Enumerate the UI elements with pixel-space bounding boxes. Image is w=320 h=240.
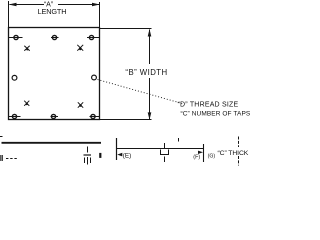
arrowhead A left <box>9 3 17 7</box>
thickness dim line lower <box>238 156 240 166</box>
tap symbol 2 lower centerline <box>164 157 166 163</box>
X mark upper-right <box>77 45 83 51</box>
top-right tap hole <box>89 35 93 39</box>
arrowhead B down <box>148 112 152 120</box>
top-left tap hole <box>14 35 18 39</box>
svg-text:(G): (G) <box>208 153 216 159</box>
svg-text:“C” NUMBER OF TAPS: “C” NUMBER OF TAPS <box>181 111 251 118</box>
tapped hole section centerline <box>87 147 89 153</box>
dimension line A right segment <box>58 4 99 6</box>
bottom-right tap hole <box>91 114 95 118</box>
svg-text:(F): (F) <box>193 154 200 160</box>
left extension line of bottom dimension <box>116 138 118 160</box>
extension line left of A dimension <box>8 1 10 28</box>
side view top surface line <box>2 142 102 144</box>
middle-left hole <box>12 75 17 80</box>
extension line top of B dimension <box>100 28 152 30</box>
tap symbol 2 U shape <box>161 150 169 155</box>
bottom dimension line <box>117 148 204 150</box>
svg-text:(E): (E) <box>123 153 131 160</box>
bottom-left tap hole <box>12 114 16 118</box>
hidden line dashes <box>6 158 17 160</box>
tap symbol 2 upper centerline <box>164 143 166 148</box>
dimension line A left segment <box>10 4 45 6</box>
dot <box>99 153 101 158</box>
extension line right of A dimension <box>99 2 101 28</box>
top-center tap hole <box>52 35 56 39</box>
plate outline (top view) <box>9 28 100 120</box>
left arrowhead <box>117 153 122 157</box>
thread dashes <box>84 158 86 164</box>
X mark lower-right <box>78 102 83 107</box>
svg-text:LENGTH: LENGTH <box>38 7 67 16</box>
side view corner tick <box>0 136 3 138</box>
svg-text:“D” THREAD SIZE: “D” THREAD SIZE <box>178 101 239 108</box>
bottom-center tap hole <box>51 114 55 118</box>
middle-right hole <box>92 75 97 80</box>
dimension line B lower segment <box>149 78 151 120</box>
thickness dim line upper <box>238 137 240 148</box>
dimension line B upper segment <box>149 30 151 65</box>
arrowhead A right <box>92 3 100 7</box>
X mark upper-left <box>24 46 29 51</box>
right extension line of bottom dimension <box>203 144 205 162</box>
arrowhead B up <box>148 29 152 37</box>
X mark lower-left <box>24 101 29 106</box>
extension line bottom of B dimension <box>100 119 152 121</box>
break mark at left <box>0 155 2 161</box>
dotted leader line to thread note <box>98 80 185 105</box>
svg-text:“B” WIDTH: “B” WIDTH <box>125 68 167 77</box>
svg-text:“C” THICK: “C” THICK <box>218 150 249 157</box>
right arrowhead <box>198 151 203 154</box>
small tick <box>178 138 180 142</box>
tapped hole bottom line <box>84 154 92 156</box>
